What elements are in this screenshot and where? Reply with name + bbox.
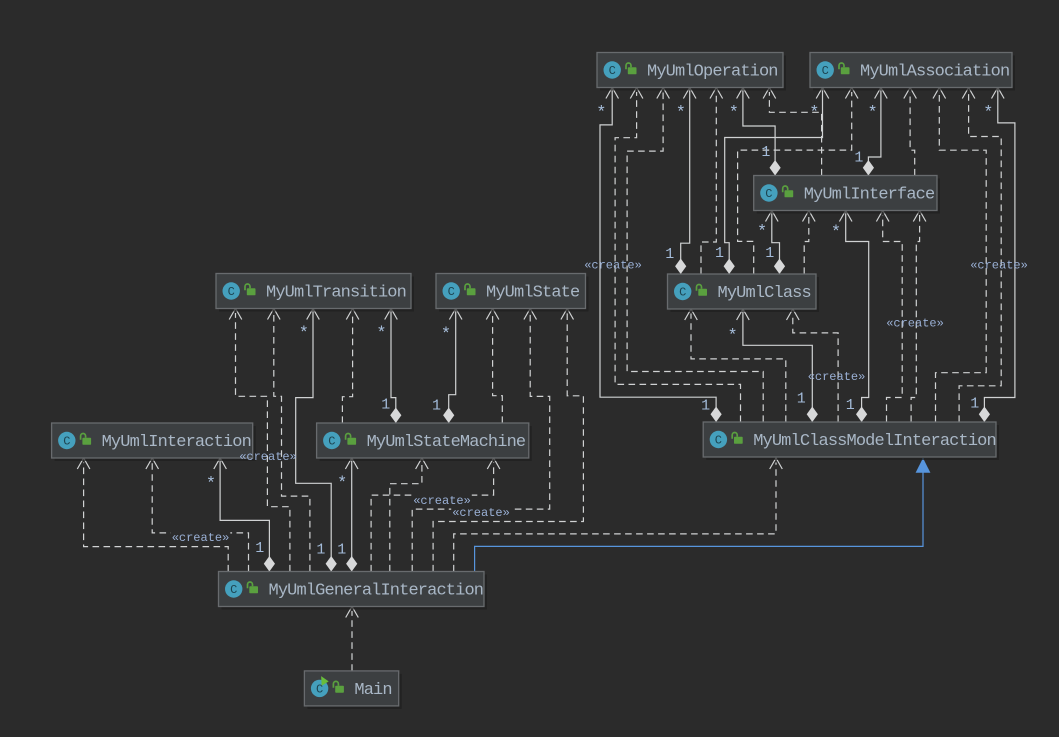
- svg-text:C: C: [822, 64, 829, 78]
- svg-text:C: C: [63, 435, 70, 449]
- svg-text:1: 1: [701, 397, 710, 414]
- svg-text:C: C: [715, 434, 722, 448]
- svg-text:1: 1: [765, 245, 774, 262]
- svg-text:*: *: [729, 104, 739, 123]
- svg-text:1: 1: [381, 397, 390, 414]
- svg-text:MyUmlClass: MyUmlClass: [718, 284, 811, 303]
- svg-text:MyUmlTransition: MyUmlTransition: [266, 284, 406, 303]
- svg-text:*: *: [831, 223, 841, 242]
- svg-text:MyUmlGeneralInteraction: MyUmlGeneralInteraction: [269, 582, 484, 601]
- svg-text:C: C: [448, 285, 455, 299]
- svg-text:«create»: «create»: [452, 506, 510, 520]
- svg-text:C: C: [228, 285, 235, 299]
- svg-text:«create»: «create»: [584, 259, 642, 273]
- svg-text:«create»: «create»: [239, 450, 297, 464]
- svg-text:MyUmlOperation: MyUmlOperation: [647, 63, 778, 82]
- svg-text:Main: Main: [354, 681, 391, 700]
- svg-text:*: *: [596, 104, 606, 123]
- svg-text:*: *: [337, 474, 347, 493]
- svg-text:*: *: [441, 326, 451, 345]
- svg-text:1: 1: [665, 246, 674, 263]
- svg-text:*: *: [867, 104, 877, 123]
- svg-text:*: *: [983, 104, 993, 123]
- svg-text:MyUmlInteraction: MyUmlInteraction: [102, 433, 251, 452]
- svg-text:C: C: [679, 286, 686, 300]
- svg-text:1: 1: [761, 144, 770, 161]
- svg-text:MyUmlStateMachine: MyUmlStateMachine: [367, 433, 526, 452]
- svg-text:1: 1: [255, 540, 264, 557]
- svg-text:MyUmlInterface: MyUmlInterface: [804, 186, 935, 205]
- svg-text:C: C: [328, 435, 335, 449]
- svg-text:1: 1: [337, 541, 346, 558]
- svg-text:*: *: [727, 327, 737, 346]
- svg-text:1: 1: [970, 396, 979, 413]
- svg-text:*: *: [809, 104, 819, 123]
- svg-text:MyUmlState: MyUmlState: [486, 284, 580, 303]
- svg-text:«create»: «create»: [886, 317, 944, 331]
- svg-text:*: *: [376, 324, 386, 343]
- svg-text:«create»: «create»: [970, 259, 1028, 273]
- svg-text:C: C: [609, 64, 616, 78]
- svg-text:MyUmlClassModelInteraction: MyUmlClassModelInteraction: [753, 432, 996, 451]
- svg-text:1: 1: [854, 150, 863, 167]
- svg-text:1: 1: [797, 391, 806, 408]
- svg-text:MyUmlAssociation: MyUmlAssociation: [860, 63, 1009, 82]
- svg-text:*: *: [676, 104, 686, 123]
- svg-text:1: 1: [316, 541, 325, 558]
- svg-text:1: 1: [846, 397, 855, 414]
- svg-text:C: C: [765, 187, 772, 201]
- svg-text:*: *: [299, 324, 309, 343]
- svg-text:«create»: «create»: [808, 370, 866, 384]
- svg-text:1: 1: [715, 245, 724, 262]
- svg-text:«create»: «create»: [172, 531, 230, 545]
- svg-text:*: *: [757, 223, 767, 242]
- svg-text:1: 1: [432, 397, 441, 414]
- svg-text:C: C: [230, 583, 237, 597]
- svg-text:*: *: [206, 475, 216, 494]
